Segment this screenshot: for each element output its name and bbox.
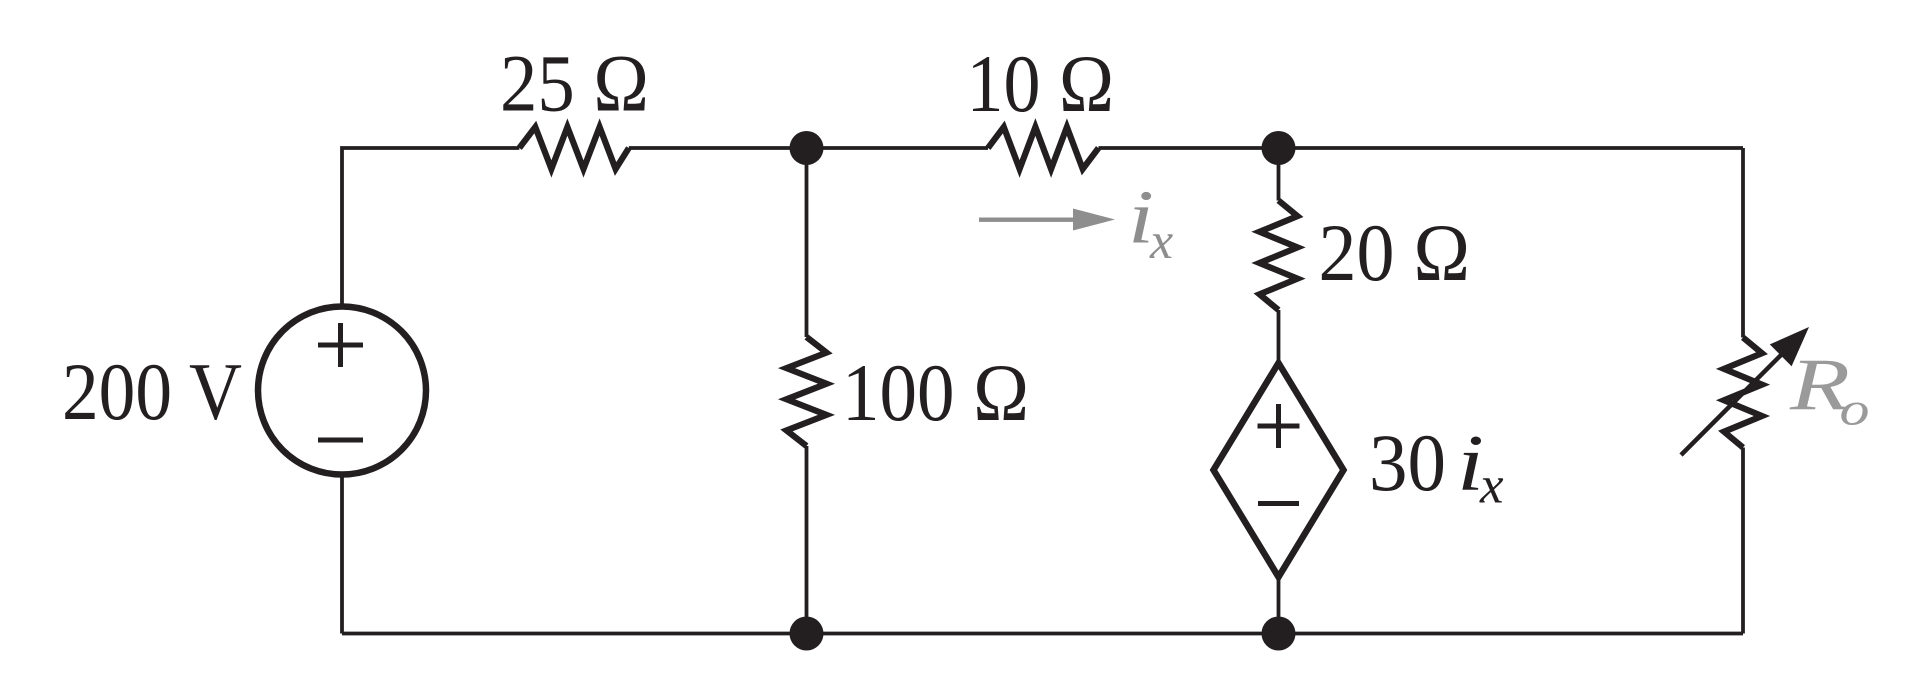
label 200 V	[62, 346, 242, 437]
node A dot top	[790, 131, 824, 165]
label 25 ohm	[500, 38, 649, 129]
resistor 100 ohm zigzag	[787, 337, 827, 446]
svg-text:100 Ω: 100 Ω	[842, 347, 1029, 438]
variable resistor Ro arrow	[1681, 327, 1809, 455]
label 20 ohm	[1319, 207, 1471, 298]
svg-text:o: o	[1840, 384, 1870, 436]
svg-text:x: x	[1149, 213, 1173, 270]
variable resistor Ro zigzag	[1724, 338, 1762, 448]
wire right vertical upper (node B corner down to Ro)	[1741, 148, 1745, 338]
wire 20 ohm to dependent source top	[1277, 310, 1281, 363]
svg-text:20 Ω: 20 Ω	[1319, 207, 1471, 298]
dependent source plus sign	[1258, 404, 1300, 448]
dependent source 30ix diamond	[1214, 363, 1344, 577]
node C dot bottom	[790, 617, 824, 651]
wire middle vertical lower (100 ohm to bottom wire)	[805, 446, 809, 634]
wire bottom horizontal	[342, 632, 1743, 636]
voltage source V 200V circle	[258, 307, 426, 475]
label Ro (gray)	[1789, 345, 1870, 436]
wire top between 10 ohm and node B	[1099, 146, 1744, 150]
svg-text:30: 30	[1369, 417, 1446, 508]
svg-text:200 V: 200 V	[62, 346, 242, 437]
wire left vertical lower (source bottom to bottom wire)	[340, 475, 344, 634]
node D dot bottom	[1262, 617, 1296, 651]
wire top-left horizontal (source top to 25 ohm)	[342, 148, 519, 307]
voltage source minus sign	[318, 438, 363, 443]
wire top between 25 ohm and node A	[629, 146, 988, 150]
resistor 25 ohm zigzag	[519, 127, 629, 169]
svg-text:10 Ω: 10 Ω	[967, 38, 1115, 129]
wire middle vertical upper (node A to 100 ohm)	[805, 148, 809, 337]
wire right vertical lower (Ro to bottom wire)	[1741, 448, 1745, 634]
wire node B down to 20 ohm	[1277, 148, 1281, 201]
resistor 10 ohm zigzag	[988, 127, 1099, 169]
svg-text:x: x	[1479, 457, 1504, 515]
svg-text:25 Ω: 25 Ω	[500, 38, 649, 129]
wire dependent source bottom to bottom wire	[1277, 577, 1281, 634]
resistor 20 ohm zigzag	[1260, 201, 1298, 311]
voltage source plus sign	[318, 323, 363, 367]
label ix current (gray)	[1128, 176, 1173, 271]
label 100 ohm	[842, 347, 1029, 438]
dependent source minus sign	[1258, 501, 1299, 506]
current arrow ix	[979, 209, 1115, 231]
label 30 ix	[1369, 417, 1504, 515]
label 10 ohm	[967, 38, 1115, 129]
node B dot top	[1262, 131, 1296, 165]
